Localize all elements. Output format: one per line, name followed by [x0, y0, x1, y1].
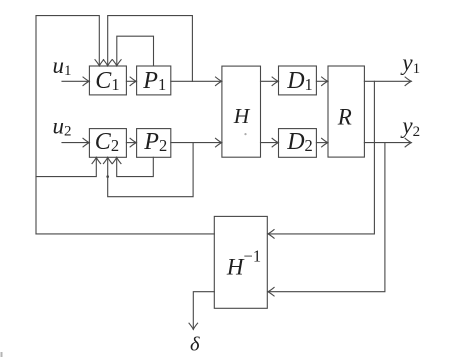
wire: C2 to P2 [126, 142, 136, 144]
faint speck artifact inside H block [244, 133, 246, 135]
svg-text:D2: D2 [286, 129, 313, 155]
wire: P2 to H [171, 142, 222, 144]
scan artifact bottom-left corner [1, 352, 3, 357]
wire: C1 to P1 [126, 80, 136, 82]
arrowhead into Hinv right input 2 [268, 287, 274, 296]
wire: D1 to R [316, 80, 327, 82]
wire: P1 to H [171, 80, 222, 82]
wire: H to D2 [261, 142, 279, 144]
svg-text:u1: u1 [53, 53, 72, 79]
wire: bottom line y=233.9 from left vertical to Hinv left edge [36, 233, 214, 235]
svg-text:y2: y2 [400, 113, 420, 140]
svg-text:P2: P2 [143, 129, 167, 155]
arrowhead H to D2 [272, 138, 278, 147]
svg-text:δ: δ [190, 334, 200, 356]
wire: R to y2 output [364, 142, 411, 144]
block P2 [137, 129, 171, 158]
block R [328, 66, 364, 157]
wire: outer feedback via top line y=15 and left vertical x=36 down to bottom line [36, 16, 99, 234]
arrowhead P2 to H [216, 138, 222, 147]
arrowhead delta down [189, 323, 198, 329]
wire: outer feedback branch at y=177 to C2 bottom arrow 1 [36, 157, 96, 176]
wire: R to y1 output [364, 80, 411, 82]
arrowhead D2 to R [322, 138, 328, 147]
wire: D2 to R [316, 142, 327, 144]
block H [222, 66, 261, 157]
wire: u2 input line [62, 142, 89, 144]
svg-text:H: H [233, 104, 251, 128]
arrowhead y2 output [405, 138, 411, 147]
arrowhead up into C2 bottom from P2 output [103, 157, 112, 163]
svg-text:C1: C1 [95, 68, 119, 94]
svg-text:H−1: H−1 [226, 247, 261, 280]
junction dot where P2 feedback crosses y=177 gap [106, 175, 109, 178]
arrowhead up into C2 bottom from P2 loop [112, 157, 121, 163]
wire: u1 input line [62, 80, 89, 82]
svg-text:R: R [337, 104, 352, 129]
arrowhead down into C1 top outer [95, 60, 104, 66]
arrowhead up into C2 bottom outer [92, 157, 101, 163]
arrowhead u1 into C1 [83, 77, 89, 86]
arrowhead down into C1 top from P1 top loop [113, 60, 122, 66]
block C2 [89, 129, 126, 158]
arrowhead u2 into C2 [83, 138, 89, 147]
wire: H to D1 [261, 80, 279, 82]
svg-text:u2: u2 [53, 114, 72, 140]
arrowhead H to D1 [272, 77, 278, 86]
block D2 [279, 129, 317, 158]
arrowhead C2 to P2 [130, 138, 136, 147]
arrowhead y1 output [405, 77, 411, 86]
wire: P2 output feedback down x=193.1 along y=196.7 into C2 bottom arrow 2 [108, 143, 193, 197]
wire: y1 feedback down x=374.4 into Hinv right input 1 [268, 81, 374, 234]
block D1 [279, 66, 317, 95]
arrowhead P1 to H [216, 77, 222, 86]
wire: P1 output feedback up x=192.4 along y=15 down into C1 top arrow 2 [108, 16, 193, 82]
svg-text:C2: C2 [95, 129, 119, 155]
wire: P2 bottom loop y=177 into C2 bottom arrow 3 [117, 157, 154, 176]
svg-text:D1: D1 [286, 68, 313, 94]
svg-text:P1: P1 [142, 68, 166, 94]
arrowhead D1 to R [322, 77, 328, 86]
block C1 [89, 66, 126, 95]
block P1 [137, 66, 171, 95]
arrowhead C1 to P1 [130, 77, 136, 86]
svg-text:y1: y1 [400, 50, 420, 77]
block Hinv [214, 216, 267, 308]
wire: y2 feedback down x=384.9 into Hinv right input 2 [268, 143, 385, 292]
wire: delta output from Hinv left edge down to arrow [193, 292, 214, 330]
arrowhead into Hinv right input 1 [268, 230, 274, 239]
arrowhead down into C1 top from P1 output [103, 60, 112, 66]
wire: P1 top loop y=36.2 into C1 top arrow 3 [117, 36, 154, 66]
